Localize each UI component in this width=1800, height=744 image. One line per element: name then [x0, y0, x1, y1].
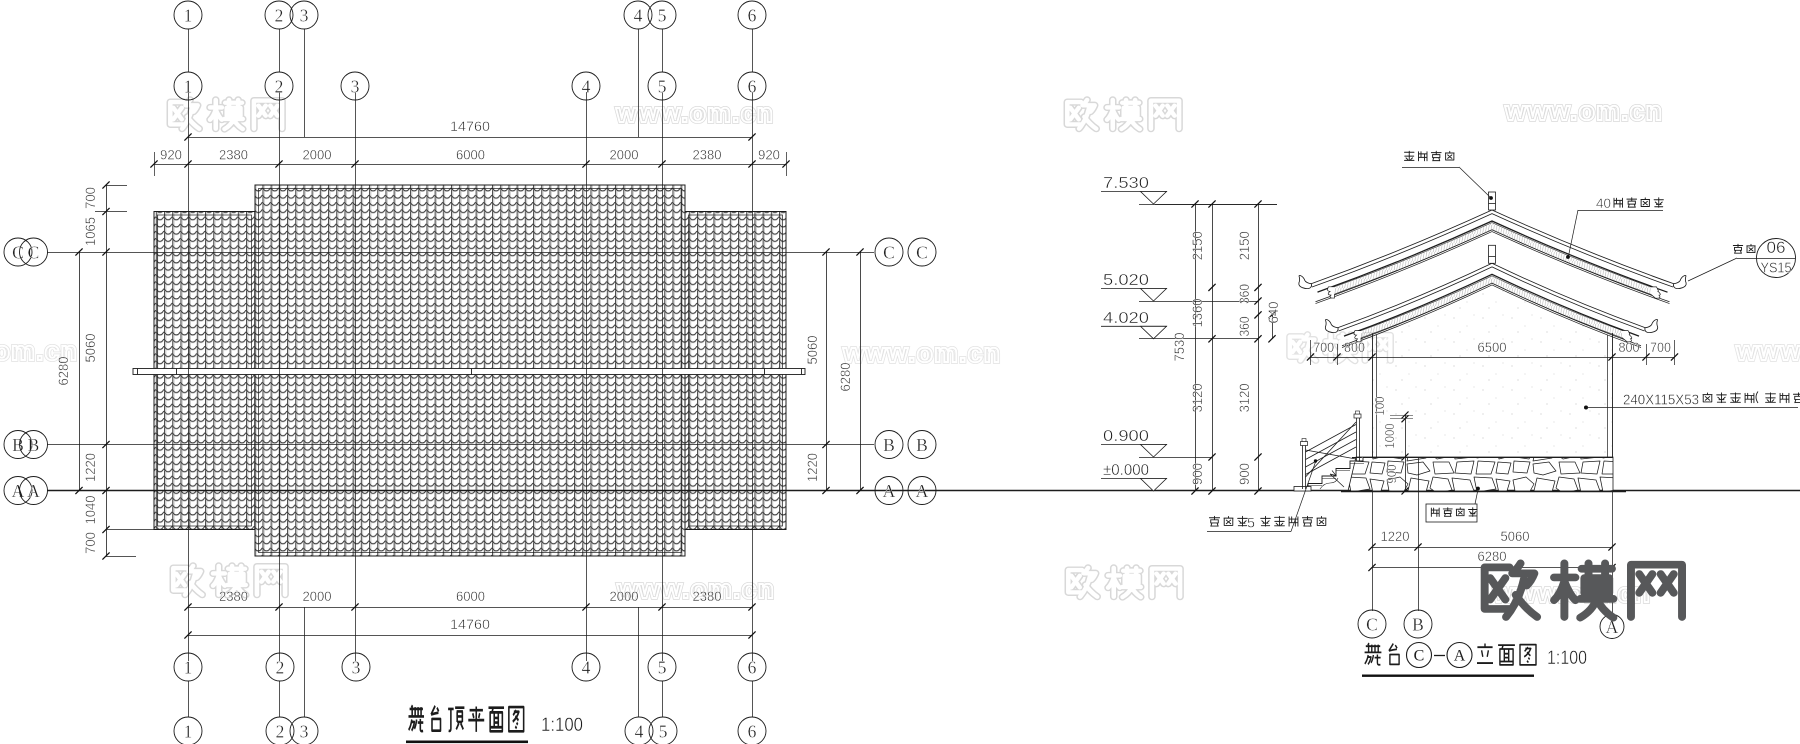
svg-text:2000: 2000: [610, 148, 639, 163]
svg-text:2150: 2150: [1237, 231, 1252, 260]
svg-text:4: 4: [582, 76, 591, 96]
svg-text:900: 900: [1385, 464, 1399, 483]
svg-text:0.900: 0.900: [1103, 428, 1149, 445]
svg-text:B: B: [916, 435, 928, 455]
svg-text:±0.000: ±0.000: [1103, 462, 1149, 479]
svg-text:6280: 6280: [56, 357, 71, 386]
svg-text:6: 6: [748, 76, 757, 96]
svg-text:920: 920: [160, 148, 182, 163]
svg-text:C: C: [28, 242, 40, 262]
svg-text:5: 5: [1247, 515, 1255, 531]
svg-text:1220: 1220: [83, 453, 98, 482]
svg-text:C: C: [916, 242, 928, 262]
svg-text:100: 100: [1373, 396, 1387, 415]
svg-text:900: 900: [1237, 463, 1252, 485]
svg-text:06: 06: [1767, 239, 1786, 257]
svg-text:640: 640: [1266, 302, 1281, 324]
svg-text:5.020: 5.020: [1103, 272, 1149, 289]
svg-text:7.530: 7.530: [1103, 175, 1149, 192]
svg-text:1360: 1360: [1190, 299, 1205, 328]
svg-text:B: B: [1412, 614, 1424, 634]
svg-text:1: 1: [184, 721, 193, 741]
svg-text:2: 2: [275, 76, 284, 96]
svg-text:800: 800: [1619, 340, 1640, 355]
svg-text:4: 4: [635, 721, 644, 741]
svg-text:A: A: [1454, 648, 1466, 665]
svg-text:1:100: 1:100: [1547, 648, 1587, 669]
svg-text:YS15: YS15: [1761, 261, 1792, 277]
svg-text:1: 1: [184, 76, 193, 96]
svg-text:6: 6: [748, 657, 757, 677]
svg-text:1065: 1065: [83, 217, 98, 246]
svg-text:2380: 2380: [693, 589, 722, 604]
svg-text:6: 6: [748, 721, 757, 741]
svg-text:2000: 2000: [303, 589, 332, 604]
svg-text:C: C: [12, 242, 24, 262]
svg-text:A: A: [883, 481, 896, 501]
svg-text:5060: 5060: [1501, 529, 1530, 544]
svg-text:2000: 2000: [610, 589, 639, 604]
svg-text:1000: 1000: [1383, 423, 1397, 448]
svg-text:6500: 6500: [1478, 340, 1507, 355]
svg-text:B: B: [883, 435, 895, 455]
svg-text:3120: 3120: [1190, 383, 1205, 412]
svg-text:C: C: [1414, 648, 1425, 665]
svg-text:2380: 2380: [219, 148, 248, 163]
svg-text:4.020: 4.020: [1103, 310, 1149, 327]
svg-text:920: 920: [758, 148, 780, 163]
svg-text:3: 3: [300, 5, 309, 25]
svg-text:A: A: [12, 481, 25, 501]
svg-text:5: 5: [658, 657, 667, 677]
svg-text:2150: 2150: [1190, 231, 1205, 260]
svg-text:www.om.cn: www.om.cn: [1735, 336, 1800, 366]
svg-text:360: 360: [1237, 317, 1252, 337]
svg-text:3: 3: [351, 76, 360, 96]
svg-text:5060: 5060: [805, 336, 820, 365]
svg-text:2: 2: [276, 657, 285, 677]
svg-text:5: 5: [658, 76, 667, 96]
svg-text:40: 40: [1596, 196, 1611, 211]
svg-text:14760: 14760: [450, 119, 490, 134]
svg-text:14760: 14760: [450, 617, 490, 632]
svg-text:6000: 6000: [456, 589, 485, 604]
svg-text:5060: 5060: [83, 334, 98, 363]
svg-text:B: B: [12, 435, 24, 455]
svg-text:1: 1: [184, 5, 193, 25]
svg-text:2380: 2380: [693, 148, 722, 163]
svg-text:240X115X53: 240X115X53: [1623, 392, 1699, 409]
svg-text:3120: 3120: [1237, 383, 1252, 412]
svg-text:1:100: 1:100: [541, 715, 583, 736]
svg-text:6000: 6000: [456, 148, 485, 163]
svg-text:4: 4: [582, 657, 591, 677]
svg-text:5: 5: [658, 5, 667, 25]
svg-text:2000: 2000: [303, 148, 332, 163]
svg-text:700: 700: [83, 532, 98, 554]
svg-text:700: 700: [83, 187, 98, 209]
svg-text:www.om.cn: www.om.cn: [842, 338, 1001, 368]
svg-text:1220: 1220: [1381, 529, 1410, 544]
svg-text:www.om.cn: www.om.cn: [1504, 96, 1663, 126]
svg-text:2: 2: [275, 5, 284, 25]
svg-text:2: 2: [276, 721, 285, 741]
svg-text:1220: 1220: [805, 453, 820, 482]
svg-text:360: 360: [1237, 284, 1252, 304]
svg-text:3: 3: [300, 721, 309, 741]
svg-text:C: C: [883, 242, 895, 262]
svg-text:4: 4: [634, 5, 643, 25]
svg-text:5: 5: [659, 721, 668, 741]
svg-text:6280: 6280: [1478, 549, 1507, 564]
svg-text:800: 800: [1344, 340, 1365, 355]
svg-text:3: 3: [352, 657, 361, 677]
svg-text:B: B: [28, 435, 40, 455]
svg-text:2380: 2380: [219, 589, 248, 604]
svg-text:1: 1: [184, 657, 193, 677]
svg-text:6: 6: [748, 5, 757, 25]
svg-text:A: A: [916, 481, 929, 501]
svg-text:A: A: [27, 481, 40, 501]
svg-text:900: 900: [1190, 463, 1205, 485]
svg-text:700: 700: [1650, 340, 1671, 355]
svg-text:700: 700: [1313, 340, 1334, 355]
svg-text:6280: 6280: [838, 363, 853, 392]
svg-text:7530: 7530: [1172, 333, 1187, 362]
svg-text:C: C: [1366, 614, 1378, 634]
svg-text:1040: 1040: [83, 496, 98, 525]
